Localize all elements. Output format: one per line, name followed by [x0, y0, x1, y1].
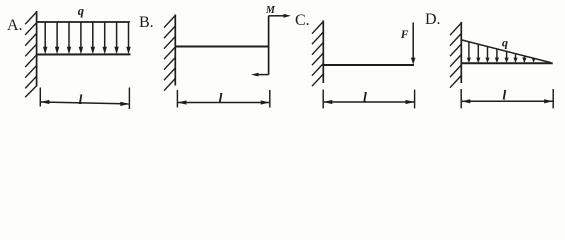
dimension l (A): arrowed line: [40, 100, 129, 106]
moment M couple (B): bottom arrow pointing left: [251, 73, 269, 77]
moment M couple (B): top arrow pointing right: [269, 14, 291, 18]
dimension l (B): extension ticks: [177, 90, 269, 108]
beam B: [175, 46, 268, 48]
beam D: [461, 62, 552, 64]
beam A: [37, 53, 131, 55]
svg-text:q: q: [502, 36, 508, 50]
wall B: [174, 15, 176, 86]
wall C: [322, 20, 324, 83]
svg-text:F: F: [400, 29, 409, 41]
wall D hatching: [450, 23, 461, 88]
wall A: [36, 11, 38, 87]
svg-text:l: l: [79, 93, 83, 108]
wall B hatching: [164, 16, 175, 91]
svg-text:B.: B.: [139, 14, 154, 31]
distributed load q on beam A: top line: [37, 21, 130, 23]
dimension l (C): extension ticks: [323, 90, 414, 109]
dimension l (A): extension ticks: [40, 88, 129, 110]
svg-text:D.: D.: [425, 11, 441, 28]
svg-text:A.: A.: [7, 17, 23, 34]
wall A hatching: [25, 12, 36, 97]
dimension l (D): arrowed line: [461, 99, 553, 103]
svg-text:l: l: [502, 89, 506, 104]
svg-text:l: l: [363, 90, 367, 105]
svg-text:q: q: [78, 4, 84, 18]
wall C hatching: [312, 22, 323, 87]
triangular distributed load q (D): sloped top line: [461, 40, 550, 63]
beam C: [323, 64, 414, 66]
svg-text:M: M: [265, 5, 276, 16]
force F (C): arrow pointing down at free end: [411, 22, 416, 64]
svg-text:l: l: [219, 91, 223, 106]
dimension l (B): arrowed line: [178, 100, 270, 104]
svg-text:C.: C.: [295, 12, 310, 29]
dimension l (C): arrowed line: [323, 100, 414, 104]
triangular distributed load q (D): arrows: [467, 42, 536, 63]
moment M couple (B): vertical stem: [268, 16, 270, 75]
dimension l (D): extension ticks: [461, 89, 553, 108]
distributed load q on beam A: arrows: [43, 22, 131, 54]
wall D: [460, 22, 462, 83]
